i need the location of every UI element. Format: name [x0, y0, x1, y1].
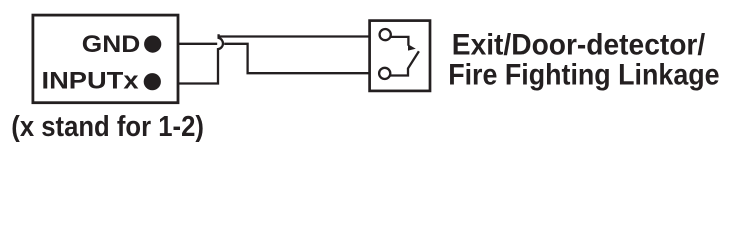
wire INPUTx riser with hop arc [179, 34, 223, 83]
terminal dot GND [144, 36, 161, 53]
svg-text:INPUTx: INPUTx [42, 67, 140, 94]
switch upper terminal circle [380, 29, 391, 40]
svg-text:Exit/Door-detector/: Exit/Door-detector/ [452, 29, 706, 62]
switch lower terminal circle [379, 68, 390, 79]
wire GND segment (box to hop) [179, 43, 218, 45]
controller terminal box [33, 15, 178, 103]
switch fixed contact [390, 37, 408, 46]
wire to switch upper terminal [218, 35, 370, 37]
svg-text:GND: GND [82, 31, 141, 58]
switch lever [390, 51, 419, 75]
terminal dot INPUTx [144, 73, 161, 90]
switch box [370, 21, 430, 91]
switch contact arrowhead [408, 44, 416, 50]
wire GND segment (hop to switch lower terminal) [224, 44, 369, 73]
svg-text:Fire Fighting Linkage: Fire Fighting Linkage [448, 59, 719, 92]
svg-text:(x stand for 1-2): (x stand for 1-2) [11, 111, 204, 143]
